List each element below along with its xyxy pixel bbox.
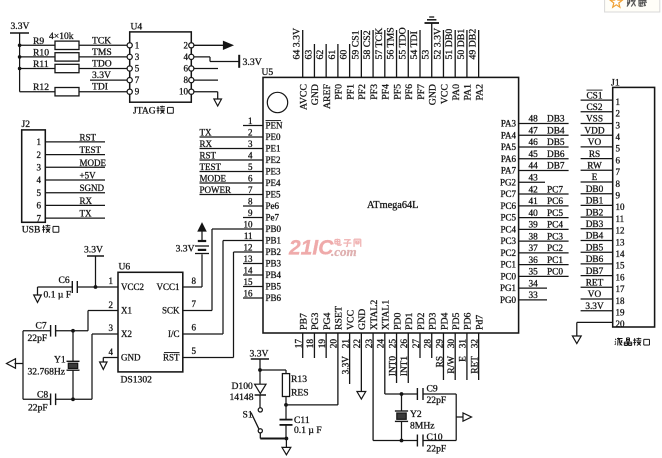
U5 pin 64 wire (top) (302, 30, 304, 77)
svg-text:R13: R13 (291, 374, 307, 385)
svg-text:22pF: 22pF (28, 333, 48, 344)
node X2/C8/Y1 (71, 397, 75, 401)
svg-text:19: 19 (318, 339, 328, 349)
svg-text:17: 17 (616, 284, 626, 294)
wire TDO net (79, 68, 127, 70)
wire TDI net (79, 91, 127, 93)
wire DB2 net (J1) (581, 216, 613, 218)
svg-text:DB4: DB4 (547, 126, 565, 136)
svg-text:PE1: PE1 (266, 144, 281, 154)
wire RX net (J2) (45, 204, 105, 206)
svg-text:PB2: PB2 (266, 247, 282, 257)
svg-text:TX: TX (80, 209, 92, 219)
svg-text:PD4: PD4 (439, 312, 450, 330)
svg-text:PC1: PC1 (547, 256, 563, 266)
U5 pin 18 wire (bottom) (313, 333, 315, 358)
svg-text:PE5: PE5 (266, 190, 282, 200)
svg-text:52 3.3V: 52 3.3V (432, 28, 443, 60)
svg-text:8: 8 (616, 179, 621, 189)
svg-text:5: 5 (135, 64, 140, 74)
svg-text:U5: U5 (262, 67, 274, 78)
svg-text:PC7: PC7 (500, 189, 516, 199)
svg-text:PC2: PC2 (500, 248, 516, 258)
svg-text:PD1: PD1 (404, 312, 415, 330)
svg-text:DB3: DB3 (586, 220, 604, 230)
U5 pin 20 wire (bottom) (337, 333, 339, 405)
svg-text:J2: J2 (22, 119, 31, 130)
svg-text:11: 11 (616, 214, 625, 224)
label LCD interface (614, 339, 617, 340)
svg-text:INT1: INT1 (400, 356, 410, 376)
U5 pin 60 wire (top) (349, 44, 351, 77)
svg-text:S1: S1 (243, 410, 253, 421)
svg-text:27: 27 (412, 339, 422, 349)
svg-text:RST: RST (80, 132, 97, 142)
svg-text:D100: D100 (232, 381, 254, 392)
svg-text:PA7: PA7 (501, 166, 517, 176)
svg-text:PG3: PG3 (310, 312, 321, 330)
svg-text:U6: U6 (119, 262, 131, 273)
U5 pin 49 wire (top) (478, 30, 480, 77)
U5 pin 21 wire (bottom) (349, 333, 351, 384)
svg-text:GND: GND (357, 309, 368, 330)
wire 3.3V net (J1) (581, 310, 613, 312)
svg-text:13: 13 (616, 237, 626, 247)
wire DB3 net (J1) (581, 228, 613, 230)
svg-text:DB6: DB6 (586, 255, 604, 265)
svg-text:14148: 14148 (230, 392, 254, 403)
svg-text:PD6: PD6 (463, 312, 474, 330)
U5 pin 62 wire (top) (325, 44, 327, 77)
svg-text:9: 9 (616, 191, 621, 201)
U5 pin 51 wire (top) (454, 30, 456, 77)
svg-text:32: 32 (470, 339, 480, 349)
svg-text:PF1: PF1 (345, 84, 356, 100)
svg-text:59 CS1: 59 CS1 (350, 30, 361, 59)
svg-text:RW: RW (587, 162, 602, 172)
svg-text:8: 8 (192, 276, 197, 286)
svg-text:1: 1 (37, 137, 42, 147)
svg-text:3.3V: 3.3V (585, 302, 604, 312)
U5 pin 59 wire (top) (360, 30, 362, 77)
svg-text:VCC2: VCC2 (121, 282, 144, 292)
svg-text:3.3V: 3.3V (243, 57, 262, 68)
svg-text:7: 7 (37, 213, 42, 223)
svg-text:6: 6 (184, 64, 189, 74)
svg-text:DB2: DB2 (586, 208, 604, 218)
svg-text:MODE: MODE (200, 174, 227, 184)
svg-text:15: 15 (616, 261, 626, 271)
svg-text:PA2: PA2 (474, 84, 485, 101)
svg-text:TX: TX (200, 128, 212, 138)
wire E net (J1) (581, 181, 613, 183)
junction dots on 3.3V rail (18, 44, 22, 48)
U5 pin 54 wire (top) (419, 30, 421, 77)
svg-text:5: 5 (37, 188, 42, 198)
favorite button (top-right) (605, 0, 660, 12)
svg-text:PA0: PA0 (451, 84, 462, 101)
svg-text:12: 12 (616, 226, 625, 236)
svg-text:PA5: PA5 (501, 142, 517, 152)
svg-text:DB3: DB3 (547, 115, 565, 125)
svg-text:PC4: PC4 (500, 224, 516, 234)
U4 pin 2 (189, 43, 194, 48)
svg-text:JTAG: JTAG (133, 106, 156, 117)
svg-text:8: 8 (248, 197, 253, 207)
wire RESET net to U5 pin 20 (286, 404, 338, 406)
svg-text:PF7: PF7 (416, 84, 427, 100)
U5 pin 31 wire (bottom) (466, 333, 468, 380)
svg-text:2: 2 (248, 128, 253, 138)
wire RS net (J1) (581, 158, 613, 160)
wire TEST net (J2) (45, 154, 105, 156)
svg-text:7: 7 (135, 75, 140, 85)
svg-text:54 TDI: 54 TDI (409, 31, 420, 59)
svg-text:TMS: TMS (92, 47, 112, 58)
svg-text:PF3: PF3 (369, 84, 380, 100)
U5 pin 50 wire (top) (466, 30, 468, 77)
svg-text:60: 60 (339, 50, 350, 60)
node XTAL2/Y2 (400, 439, 404, 443)
svg-text:61: 61 (327, 50, 338, 60)
svg-text:28: 28 (424, 339, 434, 349)
svg-text:DB4: DB4 (586, 232, 604, 242)
svg-text:50 DB1: 50 DB1 (456, 29, 467, 60)
svg-text:3: 3 (248, 139, 253, 149)
svg-text:VCC: VCC (439, 84, 450, 104)
svg-text:26: 26 (400, 339, 410, 349)
svg-text:DB5: DB5 (547, 138, 565, 148)
svg-text:7: 7 (192, 299, 197, 309)
svg-text:RS: RS (589, 150, 600, 160)
svg-text:14: 14 (244, 266, 254, 276)
svg-text:RS: RS (435, 356, 445, 367)
svg-text:PA6: PA6 (501, 154, 517, 164)
svg-text:PG2: PG2 (500, 177, 516, 187)
svg-text:4: 4 (184, 52, 189, 62)
svg-text:.com: .com (331, 244, 357, 259)
svg-text:PA3: PA3 (501, 119, 517, 129)
svg-text:10: 10 (244, 220, 254, 230)
svg-text:TDI: TDI (92, 82, 108, 93)
wire +5V net (J2) (45, 179, 105, 181)
svg-text:PC7: PC7 (547, 185, 563, 195)
svg-text:3: 3 (616, 120, 621, 130)
svg-text:4: 4 (248, 151, 253, 161)
svg-text:VO: VO (588, 138, 602, 148)
wire DB4 net (J1) (581, 240, 613, 242)
svg-text:PB4: PB4 (266, 270, 282, 280)
svg-text:5: 5 (616, 144, 621, 154)
svg-text:55 TDO: 55 TDO (397, 27, 408, 59)
svg-text:5: 5 (192, 346, 197, 356)
svg-text:22pF: 22pF (427, 395, 447, 406)
ground (U4 pin 10) (214, 99, 222, 106)
svg-text:PC0: PC0 (547, 268, 563, 278)
svg-text:RET: RET (470, 356, 480, 374)
svg-text:18: 18 (616, 296, 626, 306)
ground (U5 pin 22 GND) (357, 392, 366, 400)
wire XTAL2 to C10/Y2 (373, 440, 417, 442)
svg-text:VDD: VDD (584, 126, 604, 136)
U5 pin 27 wire (bottom) (419, 333, 421, 358)
svg-text:PE0: PE0 (266, 132, 282, 142)
svg-text:13: 13 (244, 254, 254, 264)
U4 pin 7 (127, 78, 132, 83)
svg-text:53: 53 (421, 50, 432, 60)
wire CS1 net (J1) (581, 99, 613, 101)
svg-text:PC5: PC5 (547, 209, 563, 219)
svg-text:U4: U4 (131, 22, 143, 33)
svg-text:DB1: DB1 (586, 197, 604, 207)
svg-text:1: 1 (135, 40, 140, 50)
wire ground rail left of C7/C8 (22, 331, 24, 400)
svg-text:21: 21 (341, 339, 351, 349)
svg-text:+5V: +5V (80, 171, 97, 181)
svg-text:5: 5 (248, 162, 253, 172)
wire RST net (J2) (45, 141, 105, 143)
svg-text:RET: RET (586, 279, 604, 289)
svg-text:17: 17 (295, 339, 305, 349)
U5 pin 53 wire (top) (431, 24, 433, 78)
svg-text:PD5: PD5 (451, 312, 462, 330)
svg-text:PB5: PB5 (266, 282, 282, 292)
svg-text:24: 24 (377, 339, 387, 349)
svg-text:C6: C6 (59, 275, 70, 286)
svg-text:9: 9 (248, 208, 253, 218)
svg-text:1: 1 (109, 276, 114, 286)
svg-text:PC5: PC5 (500, 213, 516, 223)
svg-text:RST: RST (200, 151, 217, 161)
svg-text:PF4: PF4 (381, 84, 392, 100)
svg-text:62: 62 (315, 50, 326, 60)
svg-text:GND: GND (310, 84, 321, 105)
U4 pin 8 (189, 78, 194, 83)
U4 pin 1 (127, 43, 132, 48)
node X1/C7/Y1 (71, 329, 75, 333)
svg-text:SGND: SGND (80, 183, 105, 193)
U4 pin 10 (189, 89, 194, 94)
svg-text:DB6: DB6 (547, 150, 565, 160)
svg-text:Y2: Y2 (410, 409, 422, 420)
svg-text:TDO: TDO (92, 59, 112, 70)
svg-text:16: 16 (616, 272, 626, 282)
svg-text:C7: C7 (36, 321, 47, 332)
svg-text:3: 3 (37, 163, 42, 173)
svg-text:PC6: PC6 (500, 201, 516, 211)
ground (U5 pin 53 top) (425, 22, 440, 24)
svg-text:C10: C10 (427, 432, 443, 443)
svg-text:PC1: PC1 (500, 260, 516, 270)
svg-text:PC2: PC2 (547, 244, 563, 254)
svg-text:20: 20 (616, 319, 626, 329)
svg-text:6: 6 (192, 323, 197, 333)
svg-text:PB6: PB6 (266, 293, 282, 303)
svg-text:TEST: TEST (200, 162, 222, 172)
svg-text:19: 19 (616, 308, 626, 318)
U5 pin 32 wire (bottom) (478, 333, 480, 380)
svg-text:3: 3 (135, 52, 140, 62)
U5 pin 22 wire (bottom) (360, 333, 362, 392)
svg-text:RX: RX (200, 139, 213, 149)
wire TMS net (79, 56, 127, 58)
svg-text:PG4: PG4 (322, 312, 333, 330)
svg-text:6: 6 (616, 155, 621, 165)
ground (U6 pin 4) (100, 362, 107, 369)
wire DB5 net (J1) (581, 251, 613, 253)
svg-text:58 CS2: 58 CS2 (362, 30, 373, 59)
svg-text:PB0: PB0 (266, 224, 282, 234)
svg-text:VSS: VSS (586, 115, 603, 125)
svg-text:E: E (459, 356, 469, 362)
svg-text:6: 6 (37, 201, 42, 211)
U5 pin 24 wire (bottom) (384, 333, 386, 394)
svg-text:PC4: PC4 (547, 221, 563, 231)
svg-text:AREF: AREF (322, 83, 333, 109)
svg-text:PF2: PF2 (357, 84, 368, 100)
svg-text:11: 11 (244, 231, 253, 241)
svg-text:PD0: PD0 (392, 312, 403, 330)
svg-text:3.3V: 3.3V (176, 244, 195, 255)
svg-text:PF0: PF0 (334, 84, 345, 100)
svg-text:PC3: PC3 (500, 236, 516, 246)
U4 pin 4 (189, 54, 194, 59)
svg-text:DB7: DB7 (547, 162, 565, 172)
svg-text:E: E (592, 173, 598, 183)
U5 pin 63 wire (top) (313, 44, 315, 77)
svg-text:3: 3 (109, 323, 114, 333)
svg-text:2: 2 (184, 40, 189, 50)
svg-text:PF5: PF5 (392, 84, 403, 100)
svg-text:X2: X2 (121, 329, 132, 339)
U5 pin 55 wire (top) (407, 30, 409, 77)
svg-text:2: 2 (37, 150, 42, 160)
svg-text:GND: GND (121, 353, 141, 363)
svg-text:7: 7 (248, 185, 253, 195)
U4 pin 9 (127, 89, 132, 94)
node XTAL1/Y2 (400, 392, 404, 396)
wire RW net (J1) (581, 169, 613, 171)
svg-text:4: 4 (616, 132, 621, 142)
svg-text:PE4: PE4 (266, 178, 282, 188)
ground (C6) (34, 295, 42, 302)
svg-text:63: 63 (303, 50, 314, 60)
U5 pin 25 wire (bottom) (396, 333, 398, 383)
svg-text:POWER: POWER (200, 185, 232, 195)
svg-text:XTAL1: XTAL1 (381, 300, 392, 330)
svg-text:PEN: PEN (266, 121, 284, 131)
svg-text:16: 16 (244, 289, 254, 299)
wire MODE net (J2) (45, 166, 105, 168)
wire C6 to ground (38, 286, 73, 288)
svg-text:22: 22 (353, 339, 363, 349)
svg-text:VCC: VCC (345, 310, 356, 330)
U5 pin 58 wire (top) (372, 30, 374, 77)
svg-text:TEST: TEST (80, 145, 102, 155)
wire RET net (J1) (581, 286, 613, 288)
wire SGND net (J2) (45, 192, 105, 194)
svg-text:AVCC: AVCC (299, 84, 310, 110)
svg-text:PE2: PE2 (266, 155, 281, 165)
svg-text:PG0: PG0 (500, 295, 517, 305)
svg-text:SCK: SCK (162, 306, 180, 316)
wire XTAL1 to C9/Y2 (385, 393, 418, 395)
svg-text:22pF: 22pF (28, 403, 48, 414)
svg-text:ATmega64L: ATmega64L (367, 200, 418, 211)
U5 pin 30 wire (bottom) (454, 333, 456, 380)
svg-text:RX: RX (80, 196, 93, 206)
svg-text:12: 12 (244, 243, 253, 253)
output arrow (crystal rail) (463, 413, 472, 421)
svg-text:25: 25 (388, 339, 398, 349)
svg-text:Pd7: Pd7 (474, 315, 485, 330)
U5 pin 56 wire (top) (396, 30, 398, 77)
svg-text:4: 4 (37, 175, 42, 185)
svg-text:31: 31 (459, 339, 469, 349)
svg-text:8MHz: 8MHz (410, 421, 435, 432)
wire DB6 net (J1) (581, 263, 613, 265)
U5 pin 52 wire (top) (442, 30, 444, 77)
wire DB7 net (J1) (581, 275, 613, 277)
svg-text:30: 30 (447, 339, 457, 349)
svg-text:3.3V: 3.3V (11, 21, 30, 32)
node R13/C11/RESET (284, 403, 288, 407)
svg-text:2: 2 (616, 109, 621, 119)
svg-text:0.1 µ F: 0.1 µ F (44, 290, 72, 301)
svg-text:DB7: DB7 (586, 267, 604, 277)
svg-text:TCK: TCK (92, 35, 111, 46)
svg-text:USB: USB (22, 225, 41, 236)
U4 pin 6 stub (194, 68, 218, 70)
svg-text:56 TMS: 56 TMS (386, 27, 397, 59)
svg-text:PB7: PB7 (299, 313, 310, 330)
svg-text:CS2: CS2 (586, 103, 602, 113)
wire VO net (J1) (581, 298, 613, 300)
svg-text:15: 15 (244, 277, 254, 287)
svg-text:10: 10 (179, 87, 189, 97)
wire TX net (J2) (45, 217, 105, 219)
svg-text:Y1: Y1 (54, 355, 66, 366)
svg-text:DB5: DB5 (586, 243, 604, 253)
wire VDD net (J1) (581, 134, 613, 136)
svg-text:VO: VO (588, 290, 602, 300)
svg-text:Pe7: Pe7 (266, 213, 280, 223)
svg-text:PC6: PC6 (547, 197, 563, 207)
wire VO net (J1) (581, 146, 613, 148)
U5 pin 19 wire (bottom) (325, 333, 327, 358)
U4 pin 8 stub (194, 79, 218, 81)
svg-text:DB0: DB0 (586, 185, 604, 195)
svg-text:PA1: PA1 (463, 84, 474, 101)
svg-text:21IC: 21IC (288, 237, 334, 260)
svg-text:PC0: PC0 (500, 271, 516, 281)
svg-text:9: 9 (135, 87, 140, 97)
U5 pin 29 wire (bottom) (442, 333, 444, 380)
U5 pin 23 wire (bottom) (372, 333, 374, 441)
svg-text:6: 6 (248, 174, 253, 184)
svg-text:20: 20 (330, 339, 340, 349)
svg-text:23: 23 (365, 339, 375, 349)
node 3.3V/D100/R13 (258, 368, 262, 372)
svg-text:Pe6: Pe6 (266, 201, 280, 211)
svg-text:PA4: PA4 (501, 130, 517, 140)
svg-text:CS1: CS1 (586, 91, 602, 101)
svg-text:49 DB2: 49 DB2 (468, 29, 479, 60)
svg-text:PD3: PD3 (428, 312, 439, 330)
svg-text:3.3V: 3.3V (341, 356, 351, 375)
U4 pin 10 wire to ground (194, 91, 218, 93)
svg-text:57 TCK: 57 TCK (374, 28, 385, 60)
